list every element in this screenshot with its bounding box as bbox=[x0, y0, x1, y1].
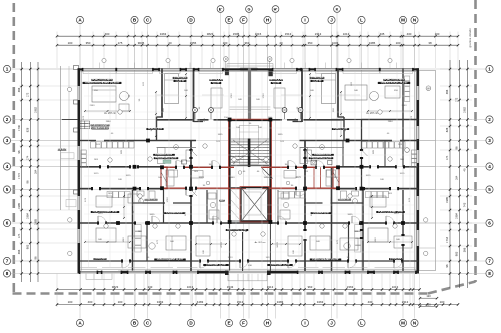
svg-text:D: D bbox=[300, 108, 302, 112]
svg-text:L: L bbox=[360, 18, 363, 23]
svg-text:1984: 1984 bbox=[26, 212, 30, 219]
svg-text:PRZEDPOKÓJ: PRZEDPOKÓJ bbox=[144, 198, 159, 201]
svg-text:1913: 1913 bbox=[267, 285, 274, 289]
svg-text:2: 2 bbox=[6, 117, 9, 122]
svg-text:366: 366 bbox=[17, 249, 21, 254]
svg-text:983: 983 bbox=[455, 251, 459, 256]
svg-text:L: L bbox=[360, 321, 363, 326]
svg-text:963: 963 bbox=[308, 285, 313, 289]
svg-text:1613: 1613 bbox=[228, 257, 234, 259]
svg-text:4: 4 bbox=[6, 164, 9, 169]
svg-text:2363: 2363 bbox=[347, 285, 354, 289]
svg-text:D: D bbox=[194, 108, 196, 112]
svg-text:E': E' bbox=[219, 7, 223, 11]
svg-text:164: 164 bbox=[33, 169, 37, 174]
svg-text:430: 430 bbox=[407, 32, 412, 36]
svg-text:1013: 1013 bbox=[392, 285, 399, 289]
svg-text:1613: 1613 bbox=[98, 213, 104, 215]
svg-text:100: 100 bbox=[440, 300, 445, 304]
svg-text:1015: 1015 bbox=[295, 176, 301, 179]
svg-text:7: 7 bbox=[6, 259, 9, 264]
svg-text:M: M bbox=[401, 321, 405, 326]
svg-text:1013: 1013 bbox=[187, 285, 194, 289]
svg-text:172: 172 bbox=[26, 92, 30, 97]
svg-text:PRZEDPOKÓJ 5,3 m²: PRZEDPOKÓJ 5,3 m² bbox=[310, 156, 332, 160]
svg-text:1982: 1982 bbox=[463, 106, 467, 113]
svg-text:F: F bbox=[242, 321, 245, 326]
svg-text:Av. 267 cm: Av. 267 cm bbox=[104, 112, 116, 115]
svg-text:2383: 2383 bbox=[90, 105, 96, 107]
svg-text:11,35 m²: 11,35 m² bbox=[175, 79, 185, 83]
svg-text:D: D bbox=[284, 108, 286, 112]
svg-text:BALKON: BALKON bbox=[57, 148, 67, 151]
svg-text:1015: 1015 bbox=[198, 176, 204, 179]
svg-text:1730: 1730 bbox=[17, 124, 21, 131]
svg-text:174: 174 bbox=[26, 155, 30, 160]
svg-text:96: 96 bbox=[26, 180, 30, 184]
svg-text:1984: 1984 bbox=[388, 121, 394, 123]
svg-text:100: 100 bbox=[396, 41, 401, 45]
svg-text:350: 350 bbox=[308, 41, 313, 45]
svg-text:400: 400 bbox=[105, 32, 110, 36]
svg-text:9635: 9635 bbox=[150, 214, 156, 216]
svg-text:J: J bbox=[330, 321, 333, 326]
svg-text:1505: 1505 bbox=[233, 32, 240, 36]
svg-text:366: 366 bbox=[463, 247, 467, 252]
svg-text:Av. 267 cm: Av. 267 cm bbox=[255, 241, 266, 244]
svg-text:1984: 1984 bbox=[455, 212, 459, 219]
svg-text:+ANEKS KUCH. 24,3 m²: +ANEKS KUCH. 24,3 m² bbox=[380, 81, 407, 85]
svg-text:8: 8 bbox=[6, 271, 9, 276]
svg-text:1635: 1635 bbox=[218, 134, 224, 136]
svg-text:6: 6 bbox=[488, 221, 491, 226]
svg-text:174: 174 bbox=[445, 155, 449, 160]
svg-text:1: 1 bbox=[6, 67, 9, 72]
svg-text:2: 2 bbox=[488, 117, 491, 122]
svg-text:H': H' bbox=[274, 7, 278, 11]
svg-text:366: 366 bbox=[445, 89, 449, 94]
svg-text:400: 400 bbox=[88, 300, 93, 304]
svg-text:6: 6 bbox=[6, 221, 9, 226]
svg-text:3463: 3463 bbox=[230, 177, 236, 179]
svg-text:40: 40 bbox=[279, 41, 283, 45]
svg-text:3463: 3463 bbox=[317, 300, 324, 304]
svg-text:963: 963 bbox=[245, 41, 250, 45]
svg-text:5: 5 bbox=[488, 187, 491, 192]
svg-text:473.8: 473.8 bbox=[221, 241, 223, 247]
svg-text:1985: 1985 bbox=[445, 196, 449, 203]
svg-text:983: 983 bbox=[26, 244, 30, 249]
svg-text:100: 100 bbox=[68, 41, 73, 45]
svg-text:PRZEDPOKÓJ 5,3 m²: PRZEDPOKÓJ 5,3 m² bbox=[155, 156, 177, 160]
svg-text:7: 7 bbox=[488, 259, 491, 264]
svg-text:350: 350 bbox=[86, 41, 91, 45]
svg-text:40: 40 bbox=[463, 168, 467, 172]
svg-text:11,35 m²: 11,35 m² bbox=[312, 79, 322, 83]
svg-text:2383: 2383 bbox=[402, 105, 408, 107]
svg-text:96: 96 bbox=[455, 146, 459, 150]
svg-text:1013: 1013 bbox=[343, 32, 350, 36]
svg-text:435: 435 bbox=[380, 32, 385, 36]
svg-text:164: 164 bbox=[455, 175, 459, 180]
svg-text:I: I bbox=[304, 321, 305, 326]
svg-text:1015: 1015 bbox=[400, 173, 406, 175]
svg-text:1003: 1003 bbox=[332, 41, 339, 45]
svg-text:3: 3 bbox=[488, 138, 491, 143]
svg-text:M: M bbox=[401, 18, 405, 23]
svg-text:100: 100 bbox=[118, 300, 123, 304]
svg-text:PRZEDPOKÓJ: PRZEDPOKÓJ bbox=[338, 198, 353, 201]
svg-text:+ANEKS KUCHENNY 24,35 m²: +ANEKS KUCHENNY 24,35 m² bbox=[85, 81, 120, 85]
svg-text:granica działki: granica działki bbox=[468, 28, 472, 47]
svg-text:D: D bbox=[210, 108, 212, 112]
svg-text:1513: 1513 bbox=[285, 32, 292, 36]
svg-text:1985: 1985 bbox=[33, 218, 37, 225]
svg-text:100: 100 bbox=[435, 32, 440, 36]
svg-text:1793: 1793 bbox=[263, 93, 265, 99]
svg-text:38: 38 bbox=[428, 41, 432, 45]
svg-text:POKÓJ DZIENNY 24 m²: POKÓJ DZIENNY 24 m² bbox=[378, 210, 403, 214]
svg-text:3: 3 bbox=[6, 138, 9, 143]
svg-text:3463: 3463 bbox=[264, 177, 270, 179]
svg-text:174: 174 bbox=[17, 233, 21, 238]
svg-text:1543: 1543 bbox=[227, 285, 234, 289]
svg-text:J: J bbox=[330, 18, 333, 23]
svg-text:SYPIALNIA: SYPIALNIA bbox=[94, 258, 106, 261]
svg-text:1613: 1613 bbox=[375, 237, 377, 243]
svg-text:1015: 1015 bbox=[126, 175, 132, 177]
svg-text:9635: 9635 bbox=[348, 214, 354, 216]
svg-text:8: 8 bbox=[488, 271, 491, 276]
svg-text:96: 96 bbox=[33, 256, 37, 260]
svg-text:96: 96 bbox=[445, 264, 449, 268]
svg-text:POKÓJ DZIENNY 21,3 m²: POKÓJ DZIENNY 21,3 m² bbox=[157, 257, 184, 261]
svg-text:1703: 1703 bbox=[331, 197, 333, 203]
svg-text:120: 120 bbox=[426, 302, 431, 306]
svg-text:O: O bbox=[225, 58, 227, 61]
svg-text:1: 1 bbox=[488, 67, 491, 72]
svg-text:3483: 3483 bbox=[277, 300, 284, 304]
svg-text:3485: 3485 bbox=[369, 41, 376, 45]
svg-text:SYPIALNIA 11,3 m²: SYPIALNIA 11,3 m² bbox=[206, 263, 226, 267]
svg-text:3463: 3463 bbox=[160, 32, 167, 36]
svg-text:1982: 1982 bbox=[33, 106, 37, 113]
svg-text:E: E bbox=[227, 321, 230, 326]
svg-text:1984: 1984 bbox=[106, 121, 112, 123]
svg-text:3823: 3823 bbox=[112, 285, 119, 289]
svg-text:175: 175 bbox=[118, 41, 123, 45]
svg-text:1703: 1703 bbox=[167, 197, 169, 203]
svg-text:1635: 1635 bbox=[278, 134, 284, 136]
svg-text:I: I bbox=[304, 18, 305, 23]
svg-text:96: 96 bbox=[17, 150, 21, 154]
svg-text:1015: 1015 bbox=[255, 32, 262, 36]
svg-text:40: 40 bbox=[168, 41, 172, 45]
svg-text:ŁAZIENKA 4,9 m²: ŁAZIENKA 4,9 m² bbox=[314, 152, 332, 156]
svg-text:1015: 1015 bbox=[366, 175, 372, 177]
svg-text:5: 5 bbox=[6, 187, 9, 192]
svg-text:172: 172 bbox=[455, 97, 459, 102]
svg-text:4,10 m²: 4,10 m² bbox=[212, 81, 220, 85]
svg-text:POKÓJ DZIENNY 21,3 m²: POKÓJ DZIENNY 21,3 m² bbox=[312, 257, 339, 261]
svg-text:1793: 1793 bbox=[231, 93, 233, 99]
svg-text:2355: 2355 bbox=[190, 41, 197, 45]
svg-text:100: 100 bbox=[223, 41, 228, 45]
svg-text:366: 366 bbox=[17, 87, 21, 92]
svg-text:3823: 3823 bbox=[207, 32, 214, 36]
svg-text:243: 243 bbox=[148, 285, 153, 289]
svg-text:15 x 17,5 x 28: 15 x 17,5 x 28 bbox=[230, 156, 245, 158]
svg-text:POKÓJ DZIENNY 24 m²: POKÓJ DZIENNY 24 m² bbox=[93, 210, 118, 214]
svg-text:9635: 9635 bbox=[138, 41, 145, 45]
svg-text:2313: 2313 bbox=[402, 300, 409, 304]
svg-text:1613: 1613 bbox=[394, 213, 400, 215]
svg-text:1985: 1985 bbox=[17, 202, 21, 209]
svg-text:2313: 2313 bbox=[315, 32, 322, 36]
svg-text:SYPIALNIA 11,3 m²: SYPIALNIA 11,3 m² bbox=[270, 263, 290, 267]
svg-text:Av. 267 cm: Av. 267 cm bbox=[366, 112, 378, 115]
svg-text:+ANEKS KUCH.: +ANEKS KUCH. bbox=[92, 127, 109, 130]
svg-text:1513: 1513 bbox=[237, 300, 244, 304]
svg-text:SYPIALNIA: SYPIALNIA bbox=[390, 258, 402, 261]
svg-text:O: O bbox=[269, 58, 271, 61]
svg-text:ŁAZ.: ŁAZ. bbox=[220, 199, 225, 202]
svg-text:828: 828 bbox=[26, 127, 30, 132]
svg-text:1015: 1015 bbox=[94, 173, 100, 175]
svg-text:1774: 1774 bbox=[17, 172, 21, 179]
svg-text:743: 743 bbox=[463, 202, 467, 207]
svg-text:1613: 1613 bbox=[266, 257, 272, 259]
svg-text:ŁAZIENKA 4,9 m²: ŁAZIENKA 4,9 m² bbox=[155, 152, 173, 156]
svg-text:G: G bbox=[248, 7, 251, 11]
svg-text:K: K bbox=[336, 7, 339, 11]
svg-text:100: 100 bbox=[68, 300, 73, 304]
svg-text:1613: 1613 bbox=[123, 237, 125, 243]
svg-text:F: F bbox=[242, 18, 245, 23]
svg-text:4: 4 bbox=[488, 164, 491, 169]
svg-text:1743: 1743 bbox=[445, 236, 449, 243]
svg-text:3463: 3463 bbox=[157, 300, 164, 304]
svg-text:430: 430 bbox=[368, 300, 373, 304]
svg-text:120: 120 bbox=[426, 294, 431, 298]
svg-text:4483: 4483 bbox=[197, 300, 204, 304]
svg-text:4,10 m²: 4,10 m² bbox=[272, 81, 280, 85]
svg-text:E: E bbox=[227, 18, 230, 23]
svg-text:828: 828 bbox=[445, 127, 449, 132]
svg-text:34.63: 34.63 bbox=[277, 241, 279, 247]
